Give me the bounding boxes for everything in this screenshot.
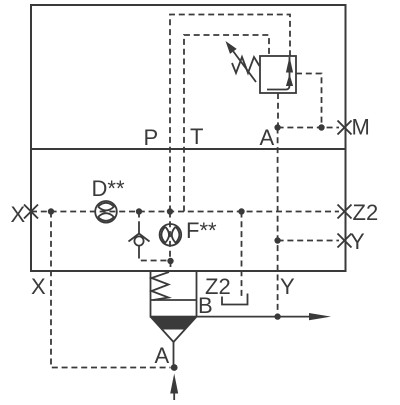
port Z2 cross: [338, 205, 352, 219]
relief valve U1 arrowhead lower: [286, 74, 293, 86]
pilot line Y: [278, 240, 339, 242]
pilot line relief valve bottom to node A: [277, 93, 279, 128]
pilot line T (dashed loop to relief valve top-left): [184, 35, 269, 212]
junction check valve branch: [136, 208, 142, 214]
svg-text:P: P: [144, 125, 159, 150]
relief valve U1 internal flow path: [267, 57, 290, 90]
junction B / Y pilot: [274, 313, 280, 319]
pilot line X lower route to A: [51, 212, 171, 368]
svg-text:Y: Y: [280, 274, 295, 299]
junction Y branch: [274, 237, 280, 243]
relief valve U1 arrowhead upper: [286, 57, 293, 73]
svg-text:X: X: [11, 202, 26, 227]
M line horizontal: [278, 127, 339, 129]
flow indicator F**: [160, 224, 182, 246]
relief valve U1 body: [260, 56, 296, 93]
pilot line A vertical (node A down to Y junction and B line): [277, 128, 279, 317]
pilot line P (dashed loop to relief valve top): [170, 15, 290, 212]
junction X lower branch: [48, 208, 54, 214]
svg-text:Y: Y: [350, 229, 365, 254]
svg-text:A: A: [260, 125, 275, 150]
relief valve adjustment arrow: [233, 51, 256, 82]
relief valve spring: [232, 57, 260, 73]
port B line: [197, 316, 312, 318]
junction A: [171, 364, 178, 371]
port X cross: [24, 205, 38, 219]
junction node A pilot: [274, 124, 280, 130]
junction on M line: [318, 124, 324, 130]
port M cross: [338, 121, 352, 135]
svg-text:F**: F**: [186, 218, 217, 243]
svg-text:D**: D**: [92, 176, 125, 201]
plugged port Z2 bracket: [222, 294, 248, 305]
pilot line F (vertical through flow indicator): [169, 212, 171, 262]
port Y cross: [338, 234, 352, 248]
flow arrow A: [170, 374, 178, 394]
pilot line Z2 down to plugged port: [241, 212, 243, 297]
logic valve spring: [152, 272, 170, 300]
check valve branch upper dashed: [138, 212, 140, 228]
svg-text:T: T: [190, 124, 203, 149]
logic valve poppet seat: [151, 317, 197, 342]
svg-text:X: X: [31, 274, 46, 299]
logic valve poppet (filled): [151, 317, 196, 330]
check valve: [129, 227, 150, 253]
junction X line / F line: [167, 208, 173, 214]
pilot line X horizontal (X to Z2): [31, 211, 339, 213]
svg-text:A: A: [155, 343, 170, 368]
junction spring pilot: [167, 258, 173, 264]
enclosure frame: [31, 5, 346, 271]
flow indicator D**: [95, 201, 117, 223]
logic valve internal line: [151, 299, 197, 301]
svg-text:M: M: [352, 115, 370, 140]
pilot line to M (from relief valve side port): [296, 74, 322, 128]
enclosure divider: [31, 148, 346, 150]
pilot line into logic valve spring: [170, 261, 172, 271]
port A line: [173, 342, 175, 368]
flow arrow B: [309, 313, 331, 320]
check valve branch lower dashed: [139, 253, 171, 261]
svg-text:Z2: Z2: [353, 200, 379, 225]
svg-text:B: B: [198, 293, 213, 318]
junction Z2 branch: [238, 208, 244, 214]
logic valve V1 body: [151, 271, 197, 317]
